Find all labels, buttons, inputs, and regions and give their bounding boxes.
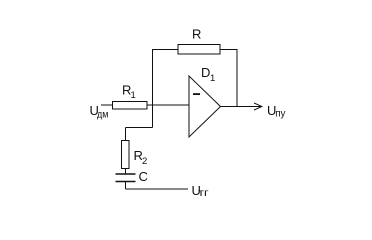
svg-text:C: C — [139, 169, 148, 184]
resistor R2 — [122, 141, 130, 169]
svg-text:пу: пу — [275, 108, 286, 120]
resistor R1 — [113, 102, 148, 110]
wire: input stub — [101, 104, 113, 106]
wire: capacitor down — [125, 182, 127, 190]
wire: feedback left vertical — [152, 49, 154, 105]
op-amp minus sign — [193, 93, 200, 95]
wire: feedback top horizontal left segment — [153, 49, 179, 51]
svg-text:тг: тг — [198, 187, 209, 199]
wire: jog horizontal — [126, 127, 153, 129]
capacitor C top plate — [116, 173, 136, 175]
wire: R2 to capacitor — [125, 169, 127, 175]
resistor R — [178, 45, 220, 55]
wire: node down vertical — [152, 105, 154, 128]
svg-text:1: 1 — [131, 90, 136, 101]
wire: feedback top horizontal right segment — [220, 49, 237, 51]
wire: bottom horizontal to Utg — [126, 188, 189, 190]
wire: R1 to op-amp input — [147, 104, 189, 106]
wire: output — [221, 106, 262, 108]
wire: jog vertical down to R2 — [125, 128, 127, 141]
svg-text:R: R — [192, 27, 201, 42]
arrowhead output — [254, 103, 262, 110]
op-amp U1 triangle — [189, 76, 221, 137]
capacitor C bottom plate — [116, 181, 136, 183]
wire: feedback right vertical — [236, 49, 238, 107]
svg-text:дм: дм — [97, 108, 108, 120]
svg-text:1: 1 — [210, 73, 215, 84]
svg-text:2: 2 — [142, 156, 147, 167]
svg-text:D: D — [201, 65, 210, 80]
